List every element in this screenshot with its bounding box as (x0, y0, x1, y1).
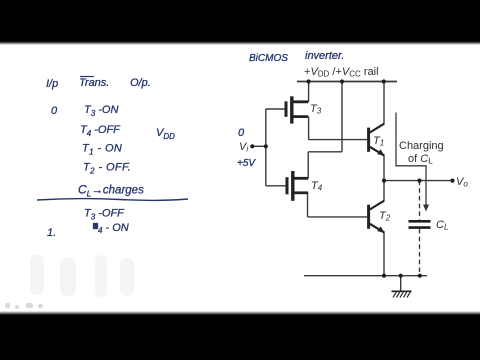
svg-text:0: 0 (238, 127, 245, 139)
transistor T4 (NMOS) (287, 171, 308, 201)
wire T2 collector up (383, 181, 385, 201)
note T4 - ON (ink blot on T) (93, 223, 98, 229)
svg-text:+VDD /+VCC rail: +VDD /+VCC rail (304, 66, 379, 79)
node ground/T2 emitter (382, 274, 386, 278)
wire T1 emitter to Vo line (383, 156, 385, 181)
wire T4 drain up (307, 152, 309, 179)
svg-text:inverter.: inverter. (305, 50, 344, 62)
node rail/T3 drain (307, 79, 311, 83)
node Vi bus junction (264, 144, 268, 148)
node ground/CL dashed (418, 274, 422, 278)
wire T3 drain to rail (308, 82, 310, 103)
svg-text:T3 -ON: T3 -ON (84, 104, 118, 118)
svg-text:4 - ON: 4 - ON (98, 222, 129, 235)
freehand rule under CL charges (37, 199, 188, 201)
junction dots (250, 79, 454, 277)
node ground/stub (399, 274, 403, 278)
wire input bus vertical (265, 109, 267, 186)
node Vo terminal (450, 179, 454, 183)
svg-text:0: 0 (51, 105, 58, 117)
svg-text:Trans.: Trans. (79, 77, 109, 89)
wire horizontal to T4 drain (308, 151, 342, 153)
dashed wire CL top (419, 181, 421, 220)
svg-text:1.: 1. (47, 227, 56, 239)
svg-text:T4 -OFF: T4 -OFF (80, 124, 121, 138)
svg-text:T1 - ON: T1 - ON (82, 143, 122, 157)
wire T2 emitter down (383, 232, 385, 276)
charging arrowhead (423, 205, 429, 212)
wire T4 source to T2 base (308, 216, 368, 218)
top letterbox bar (0, 0, 480, 42)
node Vo/T2 collector (382, 179, 386, 183)
transistor T2 (NPN BJT) (369, 201, 385, 233)
capacitor CL plates (409, 221, 431, 227)
svg-text:O/p.: O/p. (130, 77, 151, 89)
wire T3 source to T1 base (309, 139, 367, 141)
node Vo/CL dashed (417, 179, 421, 183)
node rail/drop (340, 79, 344, 83)
wire Vo line (384, 180, 453, 182)
svg-text:Charging: Charging (399, 140, 444, 152)
svg-text:T3 -OFF: T3 -OFF (84, 208, 125, 222)
ground symbol (392, 291, 412, 297)
wire T3 gate (266, 108, 285, 110)
wire Vi input (253, 145, 266, 147)
node rail/T1 collector (382, 79, 386, 83)
transistor T3 (NMOS) (286, 96, 308, 123)
wire T3 source down (308, 117, 310, 140)
transistor T1 (NPN BJT) (369, 124, 385, 156)
wire T4 source down (307, 193, 309, 217)
VDD rail (297, 81, 397, 83)
wire T1 collector to rail (383, 82, 385, 124)
bottom letterbox bar (0, 311, 480, 315)
dashed wire CL bottom (419, 229, 421, 276)
svg-text:BiCMOS: BiCMOS (249, 53, 288, 64)
wire ground stub (400, 276, 402, 291)
faint erased smudges bottom-left (30, 255, 134, 297)
wire rail drop at x342 (341, 82, 343, 152)
svg-text:I/p: I/p (46, 78, 58, 90)
charging path annotation line (396, 113, 426, 207)
node Vi terminal (250, 144, 254, 148)
svg-text:+5V: +5V (237, 158, 256, 169)
ground line bottom (304, 275, 427, 277)
wire T4 gate (266, 185, 286, 187)
